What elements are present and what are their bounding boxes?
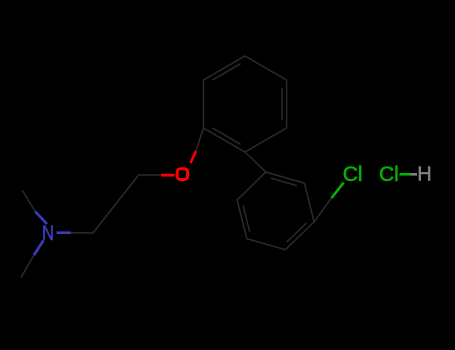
atom O	[177, 169, 187, 180]
wire N-C1 N-half	[57, 231, 71, 234]
wire C2-C3	[116, 175, 139, 204]
wire HCl Cl-half	[400, 173, 411, 176]
wire C3-O O-half	[161, 174, 175, 177]
wire C3-O C-half	[139, 174, 161, 176]
wire C1-C2	[93, 204, 116, 233]
wire B3-Cl C-half	[314, 198, 331, 222]
wire N methyl lower N-half	[34, 240, 43, 255]
svg-text:H: H	[417, 164, 431, 186]
wire methyl lower C-half	[21, 255, 34, 278]
benzene ring B	[237, 172, 314, 250]
svg-text:Cl: Cl	[343, 163, 363, 186]
ring B inner double bonds	[243, 178, 306, 242]
wire A2-B1 link	[245, 152, 266, 172]
ring A inner double bonds	[212, 64, 282, 145]
svg-text:N: N	[42, 222, 54, 245]
wire methyl upper C-half	[22, 191, 35, 212]
benzene ring A	[203, 56, 286, 152]
wire O-CH C-half	[196, 128, 203, 151]
wire HCl H-half	[411, 173, 418, 176]
wire O-CH O-half	[191, 151, 197, 163]
wire N methyl upper N-half	[35, 212, 47, 225]
svg-text:Cl: Cl	[379, 163, 399, 186]
wire N-C1 C-half	[71, 232, 93, 234]
wire B3-Cl Cl-half	[332, 183, 344, 198]
